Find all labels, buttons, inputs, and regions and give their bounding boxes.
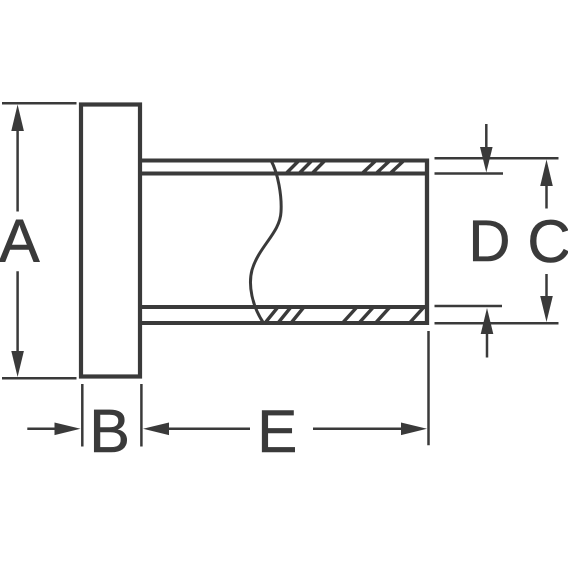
- dim B left arrow stem: [27, 428, 56, 431]
- svg-text:C: C: [527, 208, 568, 275]
- dim C lower stem: [545, 274, 548, 297]
- dim A top extension line: [2, 102, 77, 105]
- bottom wall corner hatch: [410, 307, 425, 323]
- top wall hatch group 1: [286, 161, 325, 174]
- dim E left arrowhead: [143, 423, 169, 436]
- bottom wall hatch group 2: [343, 307, 391, 323]
- svg-text:D: D: [469, 209, 511, 274]
- dim D inner top extension line: [435, 172, 504, 175]
- tube outer bottom line: [140, 321, 429, 325]
- dim E right arrowhead: [401, 423, 427, 436]
- dim C top extension line: [435, 157, 559, 160]
- dim D bottom stem: [486, 332, 489, 358]
- dim B right extension line: [140, 384, 143, 447]
- dim C upper stem: [545, 184, 548, 209]
- bottom wall hatch group 1: [265, 307, 304, 323]
- dim A up arrowhead: [11, 105, 24, 132]
- top wall hatch group 2: [362, 161, 404, 174]
- dim A line upper segment: [16, 129, 19, 212]
- dim D inner bottom extension line: [435, 305, 503, 308]
- tube inner top line: [140, 172, 427, 176]
- dim E extension line: [427, 331, 430, 445]
- dim E right stem: [313, 428, 403, 431]
- dim C bottom extension line: [435, 322, 559, 325]
- dim E left stem: [168, 428, 251, 431]
- dim D top arrowhead (down): [480, 147, 493, 173]
- dim A bottom extension line: [2, 377, 77, 380]
- break wave line: [250, 161, 281, 324]
- tube right end edge: [425, 159, 429, 326]
- dim C down arrowhead: [540, 296, 553, 322]
- dim A line lower segment: [16, 271, 19, 353]
- tube inner bottom line: [140, 305, 427, 309]
- svg-text:E: E: [257, 398, 297, 465]
- dim A down arrowhead: [11, 351, 24, 377]
- svg-text:A: A: [0, 207, 40, 275]
- dim C up arrowhead: [540, 160, 553, 187]
- svg-text:B: B: [89, 397, 130, 465]
- flange outline: [81, 105, 140, 377]
- dim D bottom arrowhead (up): [481, 308, 494, 334]
- tube outer top line: [140, 159, 429, 163]
- dim B left arrowhead: [55, 423, 81, 436]
- dim D top stem: [485, 124, 488, 149]
- dim B left extension line: [81, 384, 84, 447]
